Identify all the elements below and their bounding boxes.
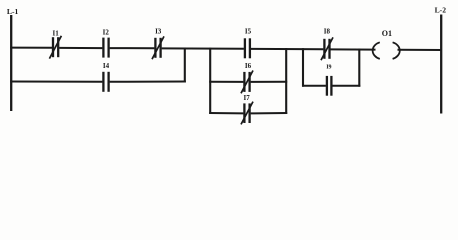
svg-text:I1: I1 xyxy=(52,29,59,37)
contact I7 (NC) xyxy=(241,102,253,125)
svg-text:I4: I4 xyxy=(103,62,110,70)
parallel block right vertical (I8/I9) xyxy=(358,49,360,87)
wire I3 to I5 xyxy=(162,47,244,49)
power rail L-2 xyxy=(440,15,442,114)
contact I8 (NC) xyxy=(321,37,333,60)
wire I7 branch left xyxy=(209,112,243,114)
svg-text:I2: I2 xyxy=(103,28,110,36)
svg-text:O1: O1 xyxy=(382,29,392,38)
contact I1 (NC) xyxy=(49,36,61,59)
power rail L-1 xyxy=(10,15,12,111)
svg-text:L-1: L-1 xyxy=(7,7,19,16)
svg-text:I9: I9 xyxy=(326,65,331,71)
output coil O1 xyxy=(373,42,400,59)
parallel block left vertical (I5/I6/I7) xyxy=(209,48,211,114)
junction vertical to I4 branch xyxy=(184,48,186,83)
svg-text:I7: I7 xyxy=(243,94,250,102)
wire coil O1 to L2 xyxy=(398,49,443,51)
parallel block left vertical (I8/I9) xyxy=(302,48,304,86)
contact I9 (NO) xyxy=(327,76,332,96)
wire I7 branch right xyxy=(251,112,288,114)
svg-text:I5: I5 xyxy=(245,28,252,36)
wire I2 to I3 xyxy=(110,47,155,49)
svg-text:I3: I3 xyxy=(155,28,162,36)
svg-text:I6: I6 xyxy=(245,62,252,70)
svg-text:L-2: L-2 xyxy=(435,6,447,15)
wire I9 branch left xyxy=(302,85,326,87)
contact I4 (NO) xyxy=(103,72,108,92)
parallel block right vertical (I5/I6/I7) xyxy=(285,48,287,114)
wire I1 to I2 xyxy=(59,47,102,49)
wire I6 branch right xyxy=(251,81,288,83)
wire I4 branch right xyxy=(110,81,186,83)
wire I5 to I8 xyxy=(251,48,324,50)
contact I2 (NO) xyxy=(103,38,108,58)
contact I3 (NC) xyxy=(152,36,164,59)
wire I4 branch left xyxy=(10,81,102,83)
contact I5 (NO) xyxy=(245,38,250,58)
svg-text:I8: I8 xyxy=(324,28,331,36)
wire I8 to coil O1 xyxy=(331,48,376,50)
contact I6 (NC) xyxy=(241,71,253,94)
wire I9 branch right xyxy=(332,85,360,87)
wire rung segment L1 to I1 xyxy=(10,47,52,49)
wire I6 branch left xyxy=(209,81,243,83)
